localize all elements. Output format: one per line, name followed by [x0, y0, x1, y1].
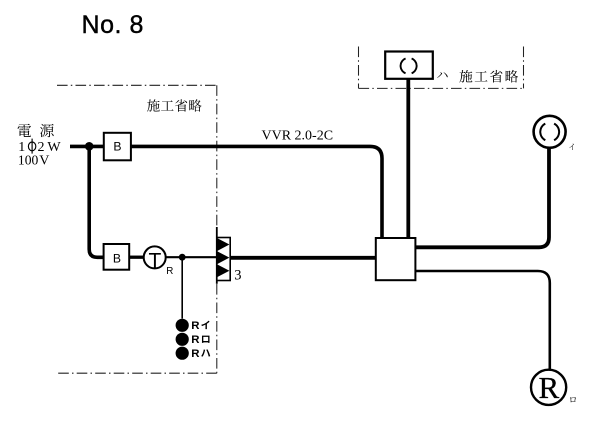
svg-text:R: R	[191, 348, 199, 360]
wire source down to breaker B2	[89, 146, 103, 257]
svg-text:100: 100	[18, 153, 39, 168]
svg-text:V: V	[39, 154, 49, 169]
svg-text:No. 8: No. 8	[82, 11, 145, 39]
svg-text:R: R	[539, 370, 560, 405]
wire T to relay terminal block	[166, 256, 217, 258]
remote switch R-RO	[176, 333, 189, 346]
label RO for receptacle	[570, 397, 576, 402]
svg-text:T: T	[148, 249, 161, 272]
breaker B2	[104, 244, 130, 270]
svg-text:B: B	[113, 140, 121, 154]
remote switch R-HA	[176, 347, 189, 360]
label power source (DEN-GEN)	[18, 124, 32, 137]
wire down to remote switches	[181, 257, 183, 318]
svg-text:R: R	[166, 266, 173, 277]
wire relay block to joint box	[230, 256, 376, 260]
svg-text:VVR 2.0-2C: VVR 2.0-2C	[262, 129, 334, 144]
lamp receptacle R (RO)	[531, 370, 566, 405]
transformer T (TR)	[144, 246, 166, 268]
remote switch R-I	[176, 319, 189, 332]
top-right construction-omitted boundary (dash-dot)	[358, 47, 360, 89]
ceiling rose I (round)	[534, 116, 566, 148]
left construction-omitted boundary (dash-dot)	[57, 84, 217, 86]
label HA construction omitted (top right)	[437, 72, 448, 78]
ceiling rose HA (square)	[385, 52, 433, 79]
label I for round ceiling rose	[569, 144, 574, 150]
remote-control relay terminal block (3)	[216, 227, 218, 284]
svg-text:B: B	[113, 252, 121, 266]
svg-text:W: W	[47, 140, 61, 155]
wire joint box to receptacle RO	[415, 271, 549, 370]
wire VVR 2.0-2C from B1 to joint box	[131, 146, 382, 238]
svg-text:3: 3	[234, 268, 241, 284]
wire B2 to transformer T	[129, 256, 144, 259]
joint box	[376, 238, 416, 280]
wire source to breaker B1	[70, 145, 104, 149]
wire lamp HA down to joint box	[406, 79, 410, 238]
node switch branch junction	[179, 254, 186, 261]
node source junction	[85, 142, 94, 151]
svg-text:R: R	[191, 334, 199, 346]
breaker B1	[104, 133, 131, 161]
label construction omitted (left box)	[147, 99, 160, 111]
svg-text:R: R	[191, 320, 199, 332]
wire lamp I down to joint box	[415, 148, 549, 248]
